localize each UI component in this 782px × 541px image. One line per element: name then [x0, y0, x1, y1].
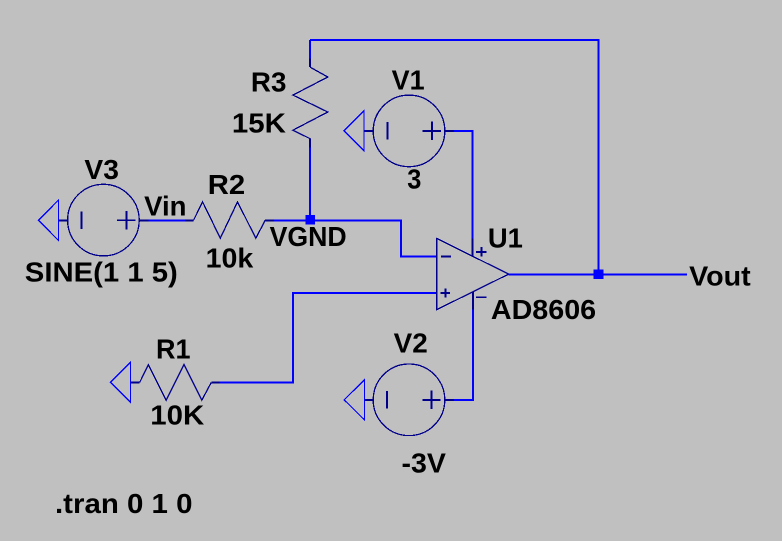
svg-text:Vin: Vin — [144, 191, 186, 222]
ground (V2) — [344, 380, 364, 420]
wire R1 to op-amp non-inverting input — [219, 293, 436, 382]
svg-text:R2: R2 — [208, 169, 245, 200]
svg-text:3: 3 — [407, 164, 421, 195]
wire VGND node to op-amp inverting input — [310, 220, 436, 256]
svg-text:10k: 10k — [206, 243, 254, 274]
svg-text:R1: R1 — [156, 334, 191, 365]
voltage source V3 — [58, 184, 148, 256]
svg-text:.tran 0 1 0: .tran 0 1 0 — [55, 488, 193, 519]
wire R3 bottom lead — [309, 148, 311, 221]
wire V2 to op-amp V- — [454, 310, 473, 400]
node VGND junction — [305, 215, 315, 225]
ground (R1) — [110, 362, 130, 402]
svg-text:10K: 10K — [150, 400, 204, 431]
wire output Vout — [509, 273, 687, 275]
voltage source V1 — [364, 95, 454, 167]
ground (V1) — [344, 111, 364, 151]
svg-text:V2: V2 — [394, 328, 428, 359]
node output junction — [594, 269, 604, 279]
wire V1 to op-amp V+ — [454, 131, 473, 239]
resistor R1 — [130, 365, 219, 401]
svg-text:Vout: Vout — [689, 260, 751, 291]
wire Vin — [148, 219, 185, 221]
svg-text:-3V: -3V — [402, 447, 447, 478]
svg-text:SINE(1 1 5): SINE(1 1 5) — [25, 256, 178, 287]
wire R2 to VGND node — [274, 219, 310, 221]
svg-text:V3: V3 — [84, 154, 119, 185]
wire feedback top — [310, 40, 598, 274]
resistor R2 — [185, 202, 274, 238]
op-amp U1 — [437, 238, 509, 309]
svg-text:VGND: VGND — [270, 221, 347, 252]
voltage source V2 — [364, 364, 454, 436]
svg-text:15K: 15K — [232, 108, 286, 139]
svg-text:AD8606: AD8606 — [491, 294, 596, 325]
svg-text:R3: R3 — [251, 66, 287, 97]
ground (V3) — [39, 200, 59, 240]
svg-text:U1: U1 — [488, 223, 523, 254]
resistor R3 — [293, 59, 328, 148]
svg-text:V1: V1 — [392, 65, 425, 96]
wire R3 top lead — [309, 40, 311, 59]
